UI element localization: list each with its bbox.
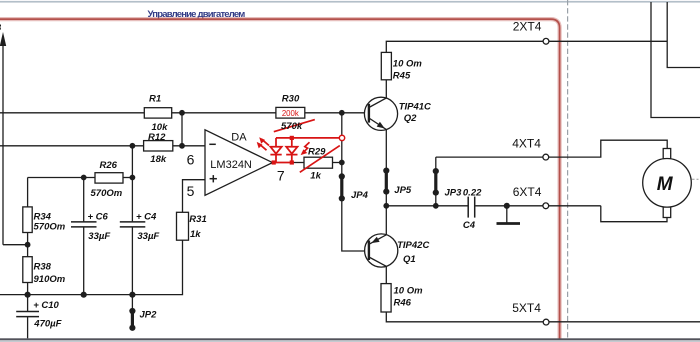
resistor R26 (95, 173, 123, 183)
svg-text:570k: 570k (281, 121, 303, 132)
wire 2 from R12 to op-amp pin 6 (173, 145, 205, 147)
svg-text:TIP42C: TIP42C (397, 240, 429, 251)
power supply arrow (2, 40, 4, 245)
resistor R34 (23, 207, 32, 233)
svg-text:5: 5 (187, 183, 195, 199)
svg-text:R26: R26 (100, 160, 118, 171)
wire 4XT4 row (436, 140, 667, 157)
junction R26 left C6 (81, 175, 87, 181)
red probe circle (339, 135, 344, 140)
resistor R1 (144, 108, 171, 118)
resistor R46 (381, 284, 391, 312)
wire 2 (net to R12) (0, 145, 144, 147)
capacitor C6 column wire (83, 178, 85, 222)
svg-text:18k: 18k (150, 154, 167, 165)
LED D2 (291, 138, 293, 147)
red sheet divider line (0, 19, 560, 338)
svg-text:1k: 1k (310, 171, 321, 182)
op-amp plus sign (210, 178, 217, 180)
wire R34 to R38 (27, 233, 29, 257)
svg-text:6: 6 (187, 151, 195, 167)
svg-text:4XT4: 4XT4 (512, 136, 541, 150)
wire C4 to bus and JP2 (131, 227, 133, 311)
svg-text:В: В (0, 23, 2, 34)
svg-text:R38: R38 (34, 262, 52, 273)
LED D1 (275, 138, 277, 147)
capacitor C6 plates (71, 221, 97, 223)
wire to R34/R38 node y=244.7 (3, 244, 28, 246)
ground bus wire (0, 240, 183, 294)
wire C6 to bus (83, 227, 85, 294)
red annotation net (257, 120, 345, 173)
op-amp U1 triangle (205, 130, 273, 196)
svg-text:C4: C4 (463, 220, 476, 231)
op-amp minus sign (209, 143, 216, 145)
junction R1/R12 node (179, 110, 185, 116)
svg-text:TIP41C: TIP41C (399, 102, 431, 113)
svg-text:7: 7 (277, 168, 285, 184)
junction R26 right (130, 175, 136, 181)
svg-text:5XT4: 5XT4 (512, 301, 541, 315)
pin 2XT4 (543, 38, 549, 44)
transistor Q1 (365, 234, 398, 267)
svg-text:470µF: 470µF (33, 319, 61, 330)
wire Q2 collector to R45 (385, 80, 387, 98)
resistor R30 (276, 107, 305, 118)
red top rail (276, 137, 340, 139)
wire R29 row black segments (292, 162, 304, 164)
wire JP3 to 6XT4 row (435, 193, 437, 206)
wire JP4 column vertical (341, 113, 343, 177)
svg-text:Q2: Q2 (404, 113, 417, 124)
junction bus JP2 (129, 292, 135, 298)
svg-text:R45: R45 (393, 71, 411, 82)
wire top-right branch A (651, 2, 700, 118)
wire C10 column (27, 295, 29, 312)
wire vertical R1 to R12 node (181, 113, 183, 146)
svg-text:+ C6: + C6 (88, 212, 109, 223)
motor M1 body (643, 159, 692, 208)
pin 5XT4 (543, 319, 549, 325)
svg-text:Q1: Q1 (403, 254, 416, 265)
wire Q1 emitter up to 6XT4 node (385, 206, 387, 235)
svg-text:570Om: 570Om (34, 222, 66, 233)
resistor R45 (381, 52, 391, 79)
wire R38 to bus (27, 283, 29, 295)
wire JP5 to 6XT4 node (385, 192, 387, 206)
sheet top border (0, 1, 700, 3)
svg-text:JP2: JP2 (140, 310, 158, 321)
capacitor C10 plates (16, 311, 39, 313)
svg-text:33µF: 33µF (137, 231, 159, 242)
pin 4XT4 (543, 154, 549, 160)
red arrows at R29 (302, 142, 309, 153)
junction 6XT4 JP5 (383, 203, 389, 209)
wire R26 row y=177.5 (28, 177, 95, 179)
red wire op-amp output row (273, 162, 292, 164)
junction 6XT4 ground (504, 203, 510, 209)
wire Q1 collector to R46 (385, 266, 387, 283)
junction R34/R38 (25, 242, 31, 248)
jumper JP4 (340, 176, 343, 198)
svg-text:910Om: 910Om (34, 274, 66, 285)
red strike over 570k (274, 120, 315, 132)
svg-text:+ C4: + C4 (136, 212, 157, 223)
capacitor C4 0.22 plates (467, 197, 469, 218)
svg-text:DA: DA (231, 132, 247, 144)
jumper JP3 (434, 171, 437, 193)
capacitor C4 plates (120, 221, 146, 223)
junction R29 right (339, 160, 345, 166)
svg-text:R31: R31 (189, 214, 206, 225)
resistor R38 (23, 257, 32, 283)
svg-text:2XT4: 2XT4 (513, 19, 542, 33)
transistor Q2 (364, 97, 397, 130)
resistor R29 (304, 157, 333, 168)
wire R29 to JP4 column (333, 162, 342, 164)
jumper JP2 (131, 311, 134, 328)
wire 1 from R1 to R30 (172, 112, 276, 114)
wire Q2 emitter to JP5 (385, 130, 387, 171)
wire top-right branch B (667, 2, 700, 68)
svg-text:+ C10: + C10 (33, 300, 59, 311)
wire R26 to C4 column (123, 177, 132, 179)
red node squares (290, 136, 294, 140)
wire down to R34 (27, 178, 29, 207)
wire R45 to 2XT4 (386, 41, 667, 52)
svg-text:R1: R1 (149, 94, 161, 105)
svg-text:33µF: 33µF (88, 231, 110, 242)
wire 6XT4 row right of C4 (475, 205, 601, 207)
LED D1 emission arrows (262, 139, 269, 145)
junction bus R38 (25, 292, 31, 298)
wire C10 to bottom (27, 317, 29, 339)
resistor R31 (177, 212, 189, 240)
wire 6XT4 row left of C4 (386, 205, 467, 207)
svg-text:R12: R12 (148, 132, 166, 143)
svg-text:JP4: JP4 (351, 190, 369, 201)
motor M1 terminals (663, 149, 671, 159)
jumper JP5 (385, 171, 388, 192)
junction bus C6 (81, 292, 87, 298)
svg-text:6XT4: 6XT4 (513, 185, 542, 199)
resistor R12 (144, 141, 173, 151)
junction 6XT4 JP3 (433, 203, 439, 209)
svg-text:LM324N: LM324N (210, 159, 252, 171)
op-amp plus input wire to R31 (183, 180, 206, 213)
svg-text:10 Om: 10 Om (393, 59, 423, 70)
junction wire2/C4 column (130, 143, 136, 149)
sheet bottom border (0, 338, 700, 340)
svg-text:570Om: 570Om (91, 188, 123, 199)
svg-text:R46: R46 (394, 298, 412, 309)
svg-text:R29: R29 (308, 147, 326, 158)
motor axis dash (692, 178, 699, 180)
svg-text:200k: 200k (282, 109, 299, 118)
wire JP4 to Q1 base (342, 198, 369, 251)
svg-text:M: M (657, 174, 674, 195)
svg-text:10 Om: 10 Om (394, 286, 424, 297)
gray dashed separator (567, 0, 569, 338)
svg-text:JP5: JP5 (394, 185, 412, 196)
ground symbol (506, 206, 508, 223)
svg-text:1k: 1k (190, 229, 201, 240)
wire JP3 column (435, 157, 437, 171)
wire 1 from R30 to Q2 base (305, 112, 369, 114)
wire motor lower branch (601, 206, 667, 222)
svg-text:R30: R30 (282, 93, 300, 104)
junction wire1 Q2 base (339, 110, 345, 116)
wire vertical node to R26 and C4 (131, 146, 133, 222)
wire 1 (net to R1) (0, 112, 144, 114)
pin 6XT4 (543, 203, 549, 209)
wire R46 to 5XT4 row (386, 312, 700, 322)
red strike over R29 (300, 146, 340, 173)
svg-text:0.22: 0.22 (463, 187, 482, 198)
svg-text:JP3: JP3 (445, 187, 463, 198)
